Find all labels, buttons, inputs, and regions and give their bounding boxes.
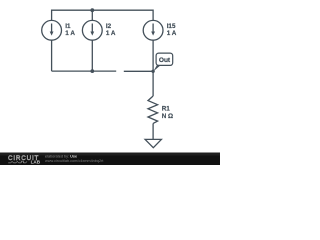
net flag Out (153, 53, 172, 71)
node junction bottom bus at I2 (90, 69, 94, 73)
svg-text:R1: R1 (162, 105, 171, 112)
current source I1 (42, 20, 62, 40)
ground (145, 139, 161, 147)
svg-text:elaborated by: Use: elaborated by: Use (45, 154, 77, 158)
current source I15 (143, 20, 163, 40)
node junction top bus at I2 (90, 8, 94, 12)
node Out junction (151, 70, 154, 73)
watermark bar (0, 153, 220, 166)
svg-text:1 A: 1 A (106, 30, 116, 37)
wire Out junction to R1 (152, 71, 154, 96)
CircuitLab logo (8, 155, 41, 165)
svg-text:1 A: 1 A (65, 30, 75, 37)
wire top bus from I1 to I15 (52, 10, 154, 20)
current source I2 (82, 20, 102, 40)
wire I1 bottom stub (51, 40, 53, 71)
wire bottom bus left segment (52, 70, 117, 72)
wire bottom bus right segment (124, 70, 153, 72)
wire I2 bottom stub (91, 40, 93, 71)
watermark text (45, 154, 104, 163)
svg-text:LAB: LAB (31, 160, 41, 165)
svg-text:Out: Out (159, 57, 171, 64)
svg-text:1 A: 1 A (167, 30, 177, 37)
svg-text:www.circuitlab.com/c4xmm4nbq2r: www.circuitlab.com/c4xmm4nbq2rt (45, 159, 104, 163)
wire I15 bottom stub (152, 40, 154, 71)
resistor R1 (148, 96, 158, 123)
wire I2 top stub (91, 10, 93, 20)
svg-text:N Ω: N Ω (162, 113, 173, 120)
wire R1 to ground (152, 123, 154, 139)
